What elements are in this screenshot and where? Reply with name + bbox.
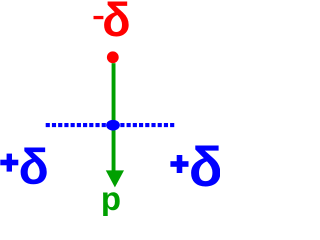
plus sign of bottom-right label +δ [170,155,188,173]
wire: dipole arrow shaft (green) [112,63,116,171]
delta of bottom-right label +δ (blue) [189,139,223,195]
minus sign of top label -δ [94,16,104,19]
delta of bottom-left label +δ (blue) [19,142,49,192]
label p: dipole moment symbol (green) [101,182,121,215]
delta of top label -δ (red) [102,0,131,43]
arrowhead of dipole moment vector p [106,170,124,187]
node: center dot on axis (blue ellipse) [106,120,120,131]
plus sign of bottom-left label +δ [0,154,18,172]
node: negative pole dot (red) [107,51,119,63]
dashed horizontal axis line (blue) [46,123,176,127]
